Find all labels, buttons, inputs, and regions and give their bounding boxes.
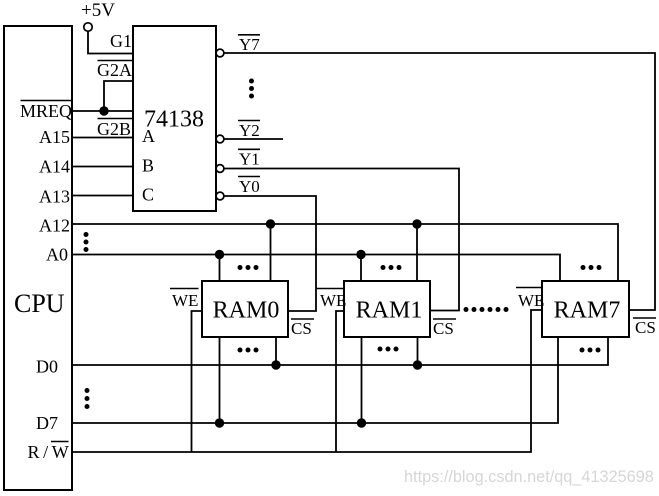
- svg-text:G1: G1: [110, 31, 132, 51]
- svg-text:CS: CS: [291, 319, 312, 338]
- svg-text:Y0: Y0: [239, 177, 260, 196]
- svg-text:B: B: [142, 156, 154, 176]
- svg-text:CPU: CPU: [14, 289, 65, 318]
- svg-text:A0: A0: [46, 245, 68, 265]
- svg-text:A15: A15: [39, 127, 70, 147]
- svg-text:MREQ: MREQ: [20, 101, 72, 121]
- svg-text:WE: WE: [518, 291, 544, 310]
- svg-text:https://blog.csdn.net/qq_41325: https://blog.csdn.net/qq_41325698: [404, 468, 654, 486]
- svg-text:R / W: R / W: [28, 442, 69, 462]
- svg-text:A12: A12: [39, 216, 70, 236]
- svg-text:CS: CS: [433, 319, 454, 338]
- svg-text:WE: WE: [172, 291, 198, 310]
- svg-text:G2B: G2B: [97, 119, 131, 139]
- svg-text:G2A: G2A: [97, 60, 132, 80]
- svg-text:RAM7: RAM7: [554, 298, 621, 324]
- svg-text:+5V: +5V: [81, 0, 115, 21]
- svg-text:Y2: Y2: [239, 121, 260, 140]
- svg-text:C: C: [142, 185, 154, 205]
- svg-text:D0: D0: [36, 357, 58, 377]
- svg-text:RAM0: RAM0: [213, 298, 280, 324]
- svg-text:WE: WE: [320, 291, 346, 310]
- svg-text:Y7: Y7: [239, 35, 260, 54]
- svg-text:A13: A13: [39, 187, 70, 207]
- svg-text:A: A: [142, 126, 155, 146]
- svg-text:RAM1: RAM1: [356, 298, 423, 324]
- svg-text:D7: D7: [36, 413, 58, 433]
- svg-text:Y1: Y1: [239, 150, 260, 169]
- svg-text:CS: CS: [635, 318, 656, 337]
- svg-text:A14: A14: [39, 157, 70, 177]
